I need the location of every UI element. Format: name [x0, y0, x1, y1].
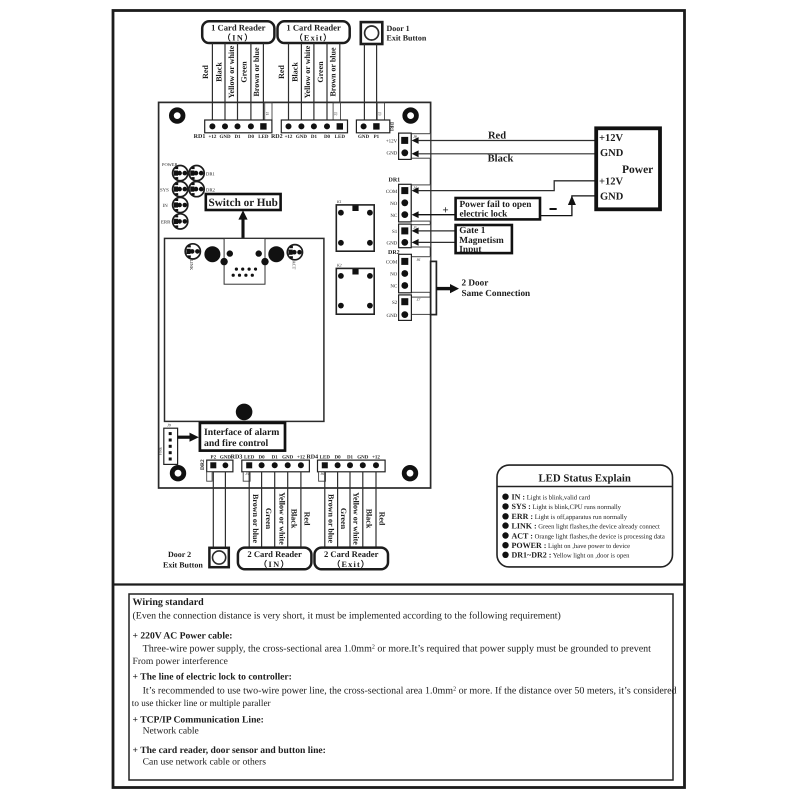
svg-text:GND: GND [282, 454, 294, 460]
svg-text:GND: GND [386, 150, 397, 156]
svg-text:2 Card Reader: 2 Card Reader [324, 549, 379, 559]
status LED SYS [160, 182, 188, 197]
wire RD2 LED (Brown or blue) [339, 43, 341, 120]
svg-text:Red: Red [303, 512, 312, 526]
wire RD4 +12 (Red) [375, 472, 377, 548]
wire labels RD2 [277, 45, 337, 98]
wire RD1 LED (Brown or blue) [262, 43, 264, 120]
svg-text:Switch or Hub: Switch or Hub [208, 197, 277, 209]
svg-text:Wiring standard: Wiring standard [133, 597, 205, 608]
svg-text:Black: Black [290, 62, 299, 82]
svg-text:J5: J5 [245, 471, 249, 476]
svg-text:GND: GND [600, 148, 624, 159]
label minus [550, 208, 557, 210]
status LED DR1 [189, 166, 216, 181]
wire labels RD4 [326, 492, 386, 545]
svg-text:GND: GND [386, 241, 397, 247]
connector DR2 (COM/NO/NC) [386, 250, 431, 293]
svg-text:Gate 1: Gate 1 [459, 226, 485, 236]
svg-text:Power: Power [622, 164, 653, 176]
svg-text:GND: GND [600, 192, 624, 203]
svg-text:RD1: RD1 [194, 134, 206, 140]
LED status item IN [502, 493, 590, 502]
svg-text:LED: LED [320, 454, 331, 460]
svg-text:+12: +12 [372, 454, 380, 460]
box: Power fail to open electric lock [456, 198, 540, 220]
wire black GND to power [418, 153, 596, 155]
svg-text:LINK: LINK [189, 260, 194, 271]
svg-text:+12: +12 [285, 134, 293, 140]
svg-text:NC: NC [390, 213, 398, 219]
svg-text:+: + [442, 204, 448, 216]
svg-text:IN: IN [163, 203, 169, 209]
svg-text:DR2: DR2 [206, 187, 216, 193]
mounting hole top-right [402, 107, 418, 123]
svg-text:Red: Red [488, 130, 506, 141]
svg-text:P1: P1 [374, 134, 380, 140]
svg-text:DR1: DR1 [206, 171, 216, 177]
black dot bottom of module [236, 404, 253, 421]
connector P2/GND (door2) [200, 459, 233, 481]
arrow from RJ45 up to switch box [238, 210, 247, 238]
svg-text:+ 220V AC Power cable:: + 220V AC Power cable: [133, 631, 233, 642]
svg-text:D0: D0 [248, 134, 255, 140]
wire RD1 D0 (Green) [250, 43, 252, 120]
svg-text:LED: LED [244, 454, 255, 460]
mounting hole bottom-left [170, 465, 186, 481]
separator line above wiring box [113, 583, 685, 585]
svg-text:GND: GND [219, 134, 231, 140]
svg-text:GND: GND [386, 313, 397, 319]
svg-text:+ The line of electric lock t: + The line of electric lock to controlle… [133, 672, 292, 683]
svg-text:D0: D0 [324, 134, 331, 140]
svg-text:NC: NC [390, 284, 398, 290]
status LED ERR [161, 214, 188, 229]
svg-text:Yellow or white: Yellow or white [303, 45, 312, 98]
status LED DR2 [189, 182, 216, 197]
svg-text:Same Connection: Same Connection [462, 288, 531, 298]
svg-text:+12: +12 [297, 454, 305, 460]
connector RD3 [242, 460, 310, 481]
svg-text:Black: Black [364, 509, 373, 529]
LED status item POWER [502, 541, 630, 550]
svg-text:J6: J6 [417, 257, 421, 262]
wire NC to lock plus [418, 214, 456, 216]
labels RD1 pins [194, 134, 269, 140]
box: 2 Card Reader (Exit) [315, 548, 389, 570]
wire RD3 D0 (Green) [261, 472, 263, 548]
svg-text:DR2: DR2 [200, 459, 206, 470]
wire RD1 D1 (Yellow or white) [237, 43, 239, 120]
door 1 exit button [361, 22, 427, 44]
wire door2 button GND [224, 472, 226, 548]
svg-text:SYS : Light is blink,CPU runs: SYS : Light is blink,CPU runs normally [512, 502, 622, 511]
LED status item ACT [502, 531, 665, 540]
inner network module rect [165, 238, 324, 421]
svg-text:（IN）: （IN） [259, 559, 290, 569]
svg-text:+12V: +12V [599, 133, 623, 144]
wire labels RD1 [201, 45, 261, 98]
LED status explain box [497, 465, 673, 567]
wiring standard text [132, 597, 677, 768]
box: 2 Card Reader (IN) [238, 548, 312, 570]
labels RD3 pins [231, 454, 306, 460]
svg-text:LED: LED [335, 134, 346, 140]
svg-text:From power interference: From power interference [133, 656, 228, 667]
svg-text:Brown or blue: Brown or blue [252, 47, 261, 96]
arrow to alarm interface box [178, 433, 199, 442]
wire RD3 +12 (Red) [300, 472, 302, 548]
connector S1/GND [386, 224, 430, 248]
wire labels RD3 [251, 492, 312, 545]
svg-text:Green: Green [339, 508, 348, 530]
power supply box [596, 128, 660, 209]
svg-text:Brown or blue: Brown or blue [326, 494, 335, 543]
arrow up on GND wire [568, 196, 576, 205]
svg-text:（Exit）: （Exit） [295, 33, 333, 43]
svg-text:+12V: +12V [386, 139, 398, 145]
svg-text:Door 1: Door 1 [387, 24, 410, 33]
svg-text:RD3: RD3 [231, 454, 243, 460]
wire red +12V to power [418, 140, 596, 142]
svg-text:P2: P2 [211, 454, 217, 460]
svg-text:NO: NO [390, 201, 398, 207]
connector power in (+12V/GND) [386, 133, 431, 159]
svg-text:+ The card reader, door sensor: + The card reader, door sensor and butto… [133, 745, 326, 756]
svg-text:+12: +12 [208, 134, 216, 140]
relay K2 [336, 263, 374, 315]
svg-text:COM: COM [386, 189, 398, 195]
svg-text:Black: Black [488, 154, 514, 165]
svg-text:and fire control: and fire control [204, 438, 269, 449]
svg-text:(Even the connection distance: (Even the connection distance is very sh… [133, 610, 561, 621]
2 door bracket [431, 261, 531, 314]
labels door1 pins [358, 134, 380, 140]
wire RD2 D0 (Green) [326, 43, 328, 120]
svg-text:2 Door: 2 Door [462, 277, 489, 287]
svg-text:Exit Button: Exit Button [163, 561, 203, 570]
svg-text:COM: COM [386, 260, 398, 266]
svg-text:RD4: RD4 [306, 454, 318, 460]
svg-text:ERR : Light is off,apparatus r: ERR : Light is off,apparatus run normall… [512, 512, 628, 521]
box: Switch or Hub [206, 194, 281, 210]
svg-text:D1: D1 [347, 454, 354, 460]
mounting hole bottom-right [402, 465, 418, 481]
svg-text:1 Card Reader: 1 Card Reader [211, 23, 266, 33]
wire RD3 GND (Black) [287, 472, 289, 548]
svg-text:DR1~DR2 : Yellow light on ,doo: DR1~DR2 : Yellow light on ,door is open [512, 551, 631, 560]
svg-text:GND: GND [358, 134, 370, 140]
svg-text:DR2: DR2 [388, 250, 400, 256]
wire RD3 D1 (Yellow or white) [274, 472, 276, 548]
svg-text:Brown or blue: Brown or blue [251, 494, 260, 543]
wire RD4 D0 (Green) [337, 472, 339, 548]
svg-text:to use thicker line or multipl: to use thicker line or multiple paraller [132, 698, 271, 708]
wire RD4 GND (Black) [362, 472, 364, 548]
svg-text:Brown or blue: Brown or blue [328, 47, 337, 96]
svg-text:K1: K1 [336, 199, 342, 204]
svg-text:（IN）: （IN） [223, 33, 254, 43]
LED status item SYS [502, 502, 621, 511]
svg-text:DR1: DR1 [389, 178, 401, 184]
svg-text:Three-wire power supply, the c: Three-wire power supply, the cross-secti… [143, 644, 652, 655]
svg-text:RD2: RD2 [271, 134, 283, 140]
connector RD2 [281, 103, 347, 133]
svg-text:Yellow or white: Yellow or white [352, 492, 361, 545]
wire RD2 D1 (Yellow or white) [313, 43, 315, 120]
labels P2 GND [211, 454, 232, 460]
status LED IN [163, 197, 188, 212]
svg-text:D0: D0 [335, 454, 342, 460]
svg-text:FIRE: FIRE [159, 446, 163, 455]
connector DR1 (COM/NO/NC) [386, 178, 431, 222]
svg-text:Red: Red [378, 512, 387, 526]
svg-text:J8: J8 [413, 134, 417, 139]
connector S2/GND [386, 295, 430, 321]
LED status item ERR [502, 512, 627, 521]
box: Interface of alarm and fire control [200, 423, 285, 451]
svg-text:J9: J9 [167, 423, 171, 428]
svg-text:+ TCP/IP Communication Line:: + TCP/IP Communication Line: [133, 715, 264, 726]
status LED POWER [162, 162, 188, 181]
DB9 post left [204, 246, 220, 262]
labels RD2 pins [271, 134, 345, 140]
wire door1 button P1 [376, 44, 378, 120]
svg-text:Black: Black [214, 62, 223, 82]
LED status item DR1~DR2 [502, 551, 630, 560]
svg-text:NO: NO [390, 272, 398, 278]
svg-text:POWER : Light on ,have power t: POWER : Light on ,have power to device [512, 541, 631, 550]
svg-text:Yellow or white: Yellow or white [227, 45, 236, 98]
PCB board outline [159, 102, 431, 488]
svg-text:J1: J1 [265, 112, 270, 116]
svg-text:K2: K2 [336, 263, 342, 268]
wire RD4 LED (Brown or blue) [324, 472, 326, 548]
svg-text:（Exit）: （Exit） [332, 559, 370, 569]
svg-text:S2: S2 [392, 300, 398, 306]
svg-text:2 Card Reader: 2 Card Reader [247, 549, 302, 559]
LED status item LINK [502, 521, 660, 530]
LED LINK [185, 244, 200, 271]
wire RD3 LED (Brown or blue) [248, 472, 250, 548]
svg-text:electric lock: electric lock [460, 210, 509, 220]
wire RD1 GND (Black) [224, 43, 226, 120]
wire S1 to gate box [418, 230, 456, 232]
door 2 exit button [163, 548, 229, 570]
svg-text:Green: Green [264, 508, 273, 530]
svg-text:Red: Red [201, 65, 210, 79]
svg-text:ACT: ACT [292, 261, 297, 270]
svg-text:POWER: POWER [162, 162, 177, 167]
svg-text:DR1: DR1 [389, 122, 395, 132]
wire COM to power +12V [418, 181, 596, 191]
DB9 connector body [220, 239, 268, 285]
svg-text:D1: D1 [311, 134, 318, 140]
svg-text:J3: J3 [378, 112, 383, 116]
wire RD2 GND (Black) [300, 43, 302, 120]
connector RD4 [318, 460, 386, 481]
svg-text:LED Status Explain: LED Status Explain [538, 473, 630, 485]
svg-text:Can use network cable or other: Can use network cable or others [143, 757, 267, 768]
svg-text:D1: D1 [234, 134, 241, 140]
svg-text:S1: S1 [392, 229, 398, 235]
LED ACT [287, 245, 302, 270]
svg-text:SYS: SYS [160, 187, 169, 193]
svg-text:+12V: +12V [599, 177, 623, 188]
svg-text:D1: D1 [272, 454, 279, 460]
relay K1 [336, 199, 374, 251]
box: Gate 1 Magnetism Input [456, 225, 512, 255]
fire alarm connector [159, 423, 178, 465]
mounting hole top-left [169, 107, 185, 123]
svg-text:GND: GND [296, 134, 308, 140]
svg-text:D0: D0 [259, 454, 266, 460]
svg-text:Door 2: Door 2 [168, 550, 191, 559]
svg-text:Input: Input [459, 245, 482, 255]
svg-text:Network cable: Network cable [143, 726, 199, 737]
svg-text:Exit Button: Exit Button [387, 33, 427, 42]
svg-text:Red: Red [277, 65, 286, 79]
connector RD1 [205, 103, 272, 133]
svg-text:GND: GND [220, 454, 232, 460]
box: 1 Card Reader (Exit) [278, 21, 350, 43]
wiring standard box [129, 594, 673, 780]
svg-text:J2: J2 [333, 112, 338, 116]
labels RD4 pins [306, 454, 380, 460]
svg-text:Power fail to open: Power fail to open [460, 200, 533, 210]
svg-text:Yellow or white: Yellow or white [277, 492, 286, 545]
wire power GND to lock minus [540, 196, 596, 216]
svg-text:ACT : Orange light flashes,the: ACT : Orange light flashes,the device is… [512, 531, 665, 540]
outer page frame [113, 11, 685, 788]
svg-text:Green: Green [240, 61, 249, 83]
BOTTOM_SECTION [213, 472, 225, 548]
svg-text:It’s recommended to use two-wi: It’s recommended to use two-wire power l… [143, 686, 677, 697]
svg-text:LINK : Green light flashes,the: LINK : Green light flashes,the device al… [512, 521, 661, 530]
svg-text:LED: LED [258, 134, 269, 140]
connector door1 GND/P1 [356, 103, 394, 133]
wire RD2 +12 (Red) [288, 43, 290, 120]
DB9 post right [268, 246, 284, 262]
svg-text:Green: Green [316, 61, 325, 83]
wire GND to gate box [418, 241, 456, 243]
wire door2 button P2 [212, 472, 214, 548]
wire RD1 +12 (Red) [211, 43, 213, 120]
svg-text:Interface of alarm: Interface of alarm [204, 427, 279, 438]
svg-text:1 Card Reader: 1 Card Reader [286, 23, 341, 33]
svg-text:J6: J6 [320, 471, 324, 476]
svg-text:GND: GND [357, 454, 369, 460]
svg-text:IN : Light is blink,valid card: IN : Light is blink,valid card [512, 493, 591, 502]
box: 1 Card Reader (IN) [202, 21, 274, 43]
svg-text:Black: Black [290, 509, 299, 529]
svg-text:ERR: ERR [161, 220, 171, 226]
wire door1 button GND [363, 44, 365, 120]
wire RD4 D1 (Yellow or white) [349, 472, 351, 548]
